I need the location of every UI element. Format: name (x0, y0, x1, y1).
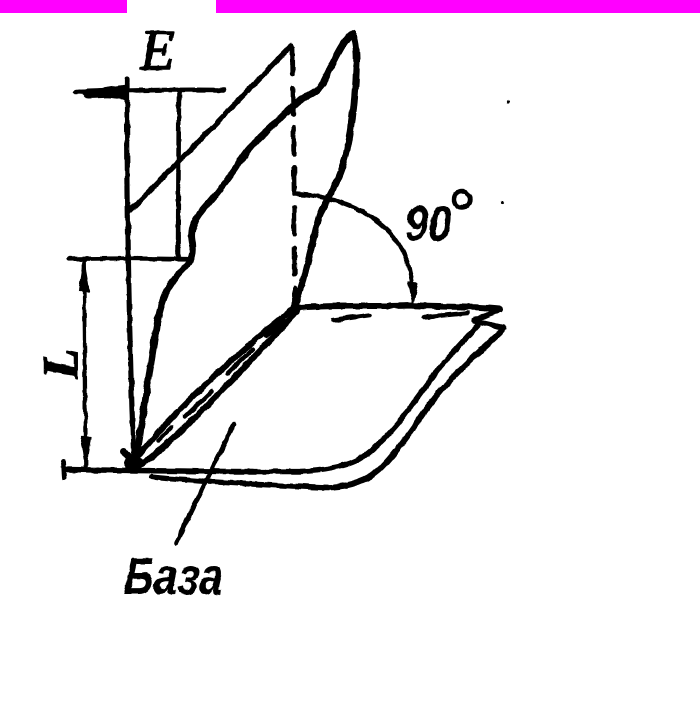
hidden edge dash d2 (185, 391, 212, 417)
square inclined back edge (129, 46, 291, 211)
corner junction blob (124, 456, 144, 470)
base right tip zigzag (474, 309, 503, 328)
90 degree arc (296, 194, 413, 296)
degree circle (454, 192, 470, 208)
bottom extension line tick (63, 462, 64, 478)
base receding edge bundle stroke 1 (136, 307, 295, 459)
base receding edge bundle stroke 2 (142, 311, 297, 464)
corner blob spur (124, 452, 138, 466)
detail torn right edge (294, 34, 357, 307)
hidden edge dash d6 (424, 313, 468, 317)
svg-text:90: 90 (405, 195, 452, 252)
arc arrowhead (408, 282, 418, 304)
view arrowhead (74, 86, 125, 100)
top magenta banner right segment (216, 0, 700, 13)
L dimension line (84, 261, 86, 466)
scan speck 1 (507, 100, 510, 103)
base right edge inner stroke (331, 325, 478, 468)
hidden edge dash d5 (334, 315, 370, 320)
hidden edge dash d1 (158, 427, 172, 441)
svg-text:База: База (122, 548, 225, 606)
bottom extension / base front edge (64, 468, 332, 472)
base right edge outer stroke (334, 329, 504, 487)
hidden edge dash d3 (228, 350, 252, 373)
L dimension extension line top (69, 256, 187, 261)
square front edge (vertical line V1) (127, 79, 134, 463)
detail torn outline (left and top edge) (136, 33, 353, 461)
leader line to base label (176, 424, 234, 543)
top magenta banner left segment (0, 0, 127, 13)
svg-text:E: E (139, 19, 175, 82)
base top back edge (294, 306, 500, 310)
base plate lower front edge (152, 477, 334, 488)
square inner edge (vertical line V2) (178, 92, 179, 258)
square hidden back edge (dashed vertical) (293, 48, 296, 303)
L dimension arrow up (80, 261, 90, 291)
L dimension arrow down (81, 437, 91, 466)
view arrow line (76, 90, 224, 92)
svg-text:L: L (32, 348, 88, 380)
arrow scan blob (88, 93, 118, 94)
hidden edge dash d4 (266, 321, 284, 336)
scan speck 2 (500, 201, 503, 204)
